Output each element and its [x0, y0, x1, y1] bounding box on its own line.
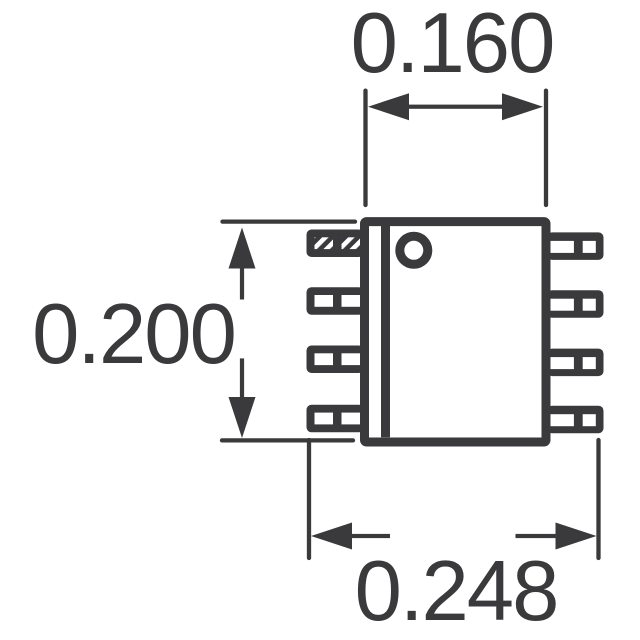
- svg-text:0.248: 0.248: [355, 544, 558, 639]
- svg-text:0.160: 0.160: [351, 0, 554, 91]
- svg-text:0.200: 0.200: [32, 287, 235, 382]
